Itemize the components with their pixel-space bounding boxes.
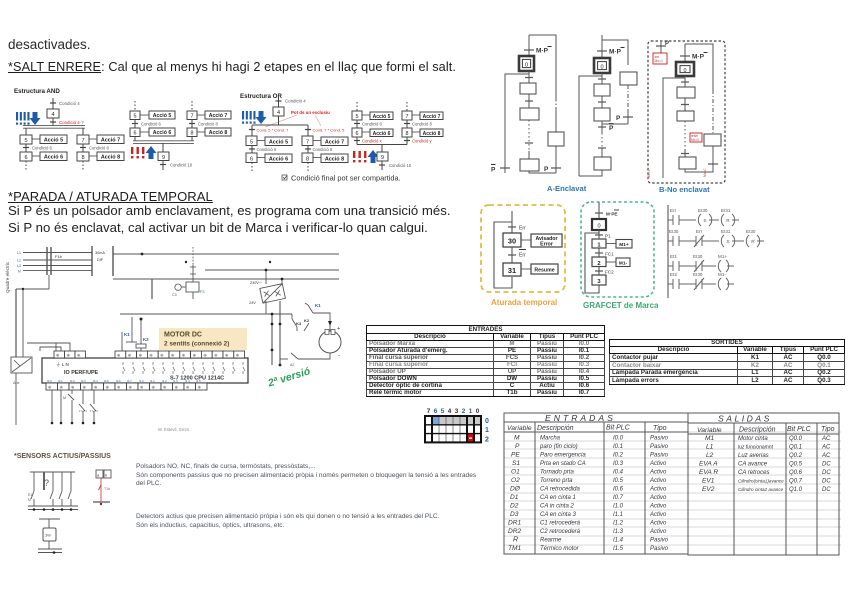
- svg-text:M: M: [28, 498, 31, 502]
- ENTRADES typed table: [366, 325, 605, 397]
- wire dotted: [684, 121, 686, 150]
- svg-text:K1: K1: [124, 332, 130, 337]
- svg-text:6: 6: [356, 131, 359, 137]
- step 8: [402, 128, 412, 137]
- svg-text:Quadre elèctric: Quadre elèctric: [5, 261, 10, 293]
- OR convergence single line: [357, 144, 407, 146]
- wire right bottom: [685, 146, 713, 172]
- svg-text:⊕: ⊕: [149, 353, 153, 358]
- left rail: [667, 205, 669, 298]
- svg-text:I0.7: I0.7: [613, 495, 624, 501]
- svg-text:⊕: ⊕: [94, 385, 98, 390]
- svg-text:⊕: ⊕: [56, 353, 60, 358]
- AND divergence double line: [23, 125, 85, 127]
- svg-text:0: 0: [684, 68, 687, 74]
- step 1: [520, 83, 536, 94]
- motor M: [319, 331, 341, 353]
- svg-text:Condició 10: Condició 10: [389, 163, 412, 168]
- svg-text:M1: M1: [705, 435, 714, 442]
- PLC top terminal strip right: [115, 351, 245, 358]
- heading PARADA: [8, 189, 213, 204]
- svg-text:M·PE: M·PE: [606, 212, 617, 217]
- svg-text:0: 0: [525, 63, 528, 69]
- svg-text:I1.0: I1.0: [613, 504, 624, 510]
- step 7: [302, 136, 313, 146]
- detector block: [39, 518, 60, 520]
- feedback left: [663, 76, 685, 178]
- yellow dashed frame: [481, 205, 565, 292]
- transition Err: [508, 226, 516, 228]
- svg-text:8: 8: [191, 131, 194, 137]
- wire + transition P: [555, 146, 557, 173]
- svg-text:PE: PE: [511, 452, 520, 459]
- wire 24V rail: [265, 301, 267, 314]
- svg-text:4: 4: [448, 408, 452, 415]
- svg-text:Acció 8: Acció 8: [325, 157, 344, 163]
- grid lines: [439, 416, 460, 442]
- svg-text:5: 5: [134, 114, 137, 120]
- svg-text:Mx=0: Mx=0: [703, 169, 707, 177]
- svg-text:M·P: M·P: [536, 48, 549, 55]
- svg-text:3: 3: [455, 408, 459, 415]
- svg-text:R: R: [726, 218, 730, 224]
- svg-text:0: 0: [485, 418, 489, 425]
- wire: [278, 97, 280, 107]
- svg-text:I0.0: I0.0: [47, 379, 52, 383]
- SALIDAS rows: [699, 435, 831, 493]
- wire: [52, 118, 54, 126]
- svg-text:EI30: EI30: [698, 208, 708, 213]
- step 0 initial: [592, 219, 606, 230]
- svg-text:0: 0: [600, 65, 603, 71]
- svg-text:⊕: ⊕: [175, 385, 179, 390]
- svg-text:W. Estevé. Emm.: W. Estevé. Emm.: [158, 427, 190, 432]
- svg-text:Térmico motor: Térmico motor: [540, 546, 580, 552]
- step 0 initial: [519, 56, 534, 71]
- wire: [278, 116, 280, 125]
- bus wires L1 L2 L3 N: [23, 253, 92, 271]
- step 2: [520, 108, 539, 120]
- red emphasis and blue arrow: [131, 147, 144, 158]
- wire: [381, 145, 383, 153]
- svg-text:⊕: ⊕: [203, 353, 207, 358]
- svg-text:Descripción: Descripción: [537, 425, 574, 432]
- svg-text:Acció 5: Acció 5: [44, 138, 63, 144]
- step D: [620, 72, 637, 85]
- blue emphasis marks: [16, 112, 41, 125]
- wire dashed: [25, 161, 27, 170]
- transition Condicio 10: [162, 161, 164, 171]
- svg-text:Condició 8: Condició 8: [89, 146, 109, 151]
- action Accio 6: [149, 128, 175, 136]
- contact K2: [291, 314, 293, 319]
- PLC S7-1200 body: [42, 358, 248, 383]
- svg-text:K2: K2: [304, 318, 310, 323]
- svg-text:⊕: ⊕: [193, 353, 197, 358]
- svg-text:M1+: M1+: [619, 242, 629, 248]
- svg-text:⊕: ⊕: [117, 353, 121, 358]
- svg-text:TM1: TM1: [508, 545, 522, 552]
- Estructura OR diagram: [235, 90, 450, 185]
- svg-text:Pasivo: Pasivo: [650, 444, 669, 450]
- top-right GRAFCET diagrams: [490, 30, 738, 196]
- cells row0: [432, 416, 481, 425]
- svg-text:I0.7: I0.7: [127, 379, 132, 383]
- svg-text:2: 2: [597, 261, 600, 267]
- action Accio 6: [370, 129, 393, 137]
- svg-text:K2: K2: [143, 337, 149, 342]
- svg-text:I0.2: I0.2: [613, 453, 624, 459]
- svg-text:+: +: [337, 326, 340, 332]
- svg-text:Mx=1: Mx=1: [655, 59, 663, 63]
- svg-text:8: 8: [406, 131, 409, 137]
- transition Condicio 8: [82, 144, 84, 152]
- svg-text:AC: AC: [821, 445, 831, 451]
- transition Condicio 6: [251, 146, 253, 154]
- svg-text:2: 2: [485, 437, 489, 444]
- svg-text:Cond. 5 * Cond. 7: Cond. 5 * Cond. 7: [257, 128, 290, 133]
- svg-text:Variable: Variable: [507, 425, 532, 432]
- svg-text:⊕: ⊕: [198, 385, 202, 390]
- svg-text:S: S: [726, 239, 729, 245]
- svg-text:Condició final pot ser compart: Condició final pot ser compartida.: [291, 174, 401, 183]
- svg-text:I0.1: I0.1: [58, 379, 63, 383]
- wire: [684, 98, 686, 111]
- fuse F3: [186, 282, 199, 292]
- step 9: [377, 152, 388, 161]
- action Resume: [531, 264, 558, 274]
- svg-text:5: 5: [356, 114, 359, 120]
- wires down: [34, 472, 71, 491]
- svg-text:Pot ds un exclusiu: Pot ds un exclusiu: [291, 110, 330, 115]
- svg-text:6: 6: [134, 131, 137, 137]
- svg-text:Condició 4·?: Condició 4·?: [59, 120, 84, 125]
- svg-text:Condició 8: Condició 8: [198, 122, 218, 127]
- svg-text:ENTRADAS: ENTRADAS: [545, 413, 616, 423]
- yellow label MOTOR DC: [159, 328, 247, 350]
- SALIDAS table frame: [688, 413, 839, 555]
- step 31: [503, 263, 521, 276]
- action set M: [653, 53, 667, 64]
- svg-text:Condició 6: Condició 6: [362, 122, 382, 127]
- PLC bottom terminal strip: [46, 383, 207, 390]
- svg-text:7: 7: [406, 114, 409, 120]
- wire dashed: [251, 163, 253, 172]
- coil R EI31: [721, 214, 739, 226]
- svg-text:Err: Err: [696, 229, 703, 234]
- svg-text:CA en cinta 1: CA en cinta 1: [540, 495, 576, 501]
- svg-text:Estructura AND: Estructura AND: [14, 88, 60, 95]
- transition Condicio 10: [381, 161, 383, 170]
- wire bottom: [529, 171, 556, 173]
- svg-text:EI30: EI30: [693, 272, 703, 277]
- svg-text:2: 2: [462, 408, 466, 415]
- transition P-bar left: [500, 167, 510, 169]
- svg-text:⏚ L N: ⏚ L N: [56, 361, 69, 367]
- svg-text:⊕: ⊕: [225, 353, 229, 358]
- svg-text:Rearme: Rearme: [540, 538, 562, 544]
- svg-text:I0.3: I0.3: [81, 379, 86, 383]
- svg-text:Pasivo: Pasivo: [650, 453, 669, 459]
- step 9: [158, 152, 169, 161]
- svg-text:4: 4: [51, 112, 54, 118]
- svg-text:Acció 5: Acció 5: [373, 114, 391, 120]
- transition red Condicio y: [406, 137, 408, 145]
- svg-text:⊕: ⊕: [214, 353, 218, 358]
- step 2: [677, 111, 694, 121]
- step 2: [592, 257, 606, 267]
- green dashed frame: [581, 202, 654, 297]
- svg-text:R: R: [751, 239, 755, 245]
- step D: [548, 132, 564, 146]
- svg-text:GRAFCET de Marca: GRAFCET de Marca: [583, 301, 658, 310]
- action Accio 8: [205, 128, 231, 136]
- svg-text:Condició 6: Condició 6: [257, 147, 277, 152]
- pink guide lines: [265, 115, 297, 127]
- contact K1: [308, 305, 313, 313]
- svg-text:P: P: [491, 167, 496, 174]
- svg-text:I1.1: I1.1: [150, 379, 155, 383]
- action Accio 7: [321, 137, 348, 146]
- cell red row2: [467, 434, 474, 443]
- step 30: [503, 233, 521, 247]
- transition Condicio 8: [307, 146, 309, 154]
- svg-text:FC2: FC2: [605, 270, 614, 275]
- svg-text:Condició 4: Condició 4: [59, 101, 80, 106]
- svg-text:⊕: ⊕: [67, 353, 71, 358]
- wire drop: [151, 279, 153, 299]
- svg-text:Marcha: Marcha: [540, 436, 561, 442]
- wires into PLC left: [27, 343, 70, 351]
- svg-text:I1.5: I1.5: [196, 379, 201, 383]
- wire + transition Err-bar: [511, 247, 513, 263]
- step 6: [20, 152, 32, 161]
- transition red: [50, 121, 56, 123]
- svg-text:Tipo: Tipo: [821, 426, 835, 433]
- svg-text:P: P: [515, 443, 520, 450]
- svg-text:Acció 7: Acció 7: [101, 138, 120, 144]
- wires below PLC: [52, 390, 94, 423]
- svg-text:M: M: [63, 396, 66, 400]
- step 1: [677, 87, 695, 98]
- svg-text:6: 6: [434, 408, 438, 415]
- svg-text:Acció 6: Acció 6: [44, 155, 63, 161]
- svg-text:7: 7: [306, 140, 309, 146]
- svg-text:⊕: ⊕: [236, 353, 240, 358]
- action Accio 8: [97, 152, 124, 161]
- differential 30mA DIF: [91, 246, 93, 276]
- svg-text:P1: P1: [605, 234, 611, 239]
- svg-text:⊕: ⊕: [140, 385, 144, 390]
- svg-text:Paro emergencia: Paro emergencia: [540, 453, 586, 459]
- svg-text:0: 0: [597, 224, 600, 230]
- svg-text:Acció 7: Acció 7: [423, 114, 441, 120]
- red emphasis and blue arrow: [353, 151, 366, 162]
- transition P: [623, 116, 633, 118]
- svg-text:8: 8: [81, 155, 84, 161]
- svg-text:Descripción: Descripción: [739, 427, 776, 434]
- wire: [601, 73, 603, 84]
- action Accio 7: [205, 111, 231, 119]
- svg-text:Condició 8: Condició 8: [313, 147, 333, 152]
- step 3: [679, 157, 696, 169]
- thermostat with fuse: [96, 470, 103, 478]
- svg-text:Luz averias: Luz averias: [738, 453, 769, 459]
- svg-text:Activo: Activo: [649, 504, 667, 510]
- breaker F1b: [46, 247, 48, 275]
- wire to motor: [313, 313, 330, 331]
- rung 2: [668, 235, 719, 247]
- wire main: [601, 35, 603, 58]
- green handwriting 2a versio: [267, 360, 328, 389]
- svg-text:230V∼: 230V∼: [250, 281, 262, 285]
- step 2: [594, 108, 610, 121]
- svg-text:I1.2: I1.2: [162, 379, 167, 383]
- svg-text:Acció 8: Acció 8: [423, 131, 441, 137]
- svg-text:⊕: ⊕: [163, 385, 167, 390]
- action M1-: [616, 258, 630, 267]
- svg-text:EI30: EI30: [693, 254, 703, 259]
- svg-text:S: S: [703, 218, 706, 224]
- svg-text:8: 8: [306, 157, 309, 163]
- terminal glyphs top: [56, 353, 239, 358]
- svg-text:Et2: Et2: [670, 272, 677, 277]
- svg-text:Mx=1: Mx=1: [647, 170, 651, 178]
- feedback wire: [494, 222, 512, 288]
- rung 3: [668, 260, 734, 272]
- bit grid: [420, 402, 498, 448]
- wire: [162, 143, 164, 152]
- OR divergence single line: [252, 124, 308, 126]
- branch 2: [307, 125, 309, 136]
- svg-text:7: 7: [81, 138, 84, 144]
- svg-text:D2: D2: [510, 503, 519, 510]
- svg-text:⊕: ⊕: [71, 385, 75, 390]
- wire into transformer: [281, 279, 283, 285]
- svg-text:Variable: Variable: [697, 427, 722, 434]
- svg-text:I0.0: I0.0: [613, 436, 624, 442]
- svg-text:⊕: ⊕: [83, 385, 87, 390]
- svg-text:3W: 3W: [45, 534, 51, 538]
- action Accio 5: [40, 135, 67, 144]
- step 5: [20, 135, 32, 144]
- handwritten tables: [500, 408, 845, 560]
- transition Condicio 6: [25, 144, 27, 152]
- action Accio 8: [321, 154, 348, 163]
- svg-text:DIF: DIF: [97, 258, 104, 262]
- svg-text:L2: L2: [17, 259, 21, 263]
- svg-text:Tipo: Tipo: [653, 425, 667, 432]
- svg-text:Err: Err: [670, 208, 677, 213]
- GRAFCET de Marca diagram: [578, 198, 658, 312]
- wire dashed: [82, 161, 84, 170]
- wire: [684, 76, 686, 87]
- phase labels: [17, 251, 21, 274]
- svg-text:Mx=0: Mx=0: [691, 138, 699, 142]
- svg-text:Pasivo: Pasivo: [650, 538, 669, 544]
- svg-text:6: 6: [250, 157, 253, 163]
- vertical feeders: [271, 314, 273, 365]
- PLC top terminal strip left: [54, 351, 86, 358]
- svg-text:7: 7: [191, 114, 194, 120]
- transition Condicio 8: [406, 120, 408, 128]
- svg-text:24V: 24V: [249, 301, 256, 305]
- svg-text:Condició 6: Condició 6: [32, 146, 52, 151]
- wire: [52, 98, 54, 109]
- step 6: [130, 128, 140, 137]
- svg-text:Err: Err: [519, 226, 526, 232]
- dashed frame: [648, 41, 725, 183]
- svg-text:⊕: ⊕: [139, 353, 143, 358]
- step 5: [352, 111, 362, 120]
- feedback wire: [585, 230, 599, 293]
- left feeder wires to aux: [48, 275, 50, 289]
- transition FC2: [598, 267, 600, 276]
- Estructura AND diagram: [12, 84, 240, 186]
- branch 2 wire: [82, 128, 84, 135]
- aux breaker: [11, 357, 32, 373]
- step 8: [187, 128, 197, 137]
- svg-text:F3: F3: [200, 290, 204, 294]
- svg-text:Condició 10: Condició 10: [170, 163, 193, 168]
- wire transitions bottom: [684, 150, 686, 157]
- svg-text:Et1: Et1: [670, 254, 677, 259]
- step 6: [246, 153, 257, 163]
- wire dotted: [601, 133, 603, 148]
- rung 4: [668, 278, 734, 290]
- svg-text:A2: A2: [290, 363, 294, 367]
- transition FC1: [598, 248, 600, 257]
- wire: [528, 71, 530, 83]
- action Accio 5: [265, 137, 292, 146]
- wire join: [602, 123, 628, 125]
- wire dashed: [356, 102, 358, 111]
- svg-text:P: P: [665, 41, 669, 47]
- svg-text:paro (fin ciclo): paro (fin ciclo): [539, 444, 578, 450]
- transition Condicio 8: [191, 120, 193, 129]
- svg-text:F1b: F1b: [55, 254, 63, 259]
- wire main: [511, 211, 513, 233]
- svg-text:I1.5: I1.5: [613, 546, 624, 552]
- svg-text:Pasivo: Pasivo: [650, 546, 669, 552]
- feedback wire left: [505, 71, 529, 173]
- step 5: [246, 136, 257, 146]
- svg-text:Error: Error: [540, 242, 553, 248]
- svg-text:31: 31: [508, 266, 516, 275]
- svg-text:P: P: [609, 125, 614, 132]
- main wiring schematic: [0, 243, 470, 443]
- PLC internal relay contacts: [123, 362, 245, 374]
- svg-text:Bit PLC: Bit PLC: [606, 425, 631, 432]
- svg-text:-: -: [338, 352, 340, 359]
- svg-text:L1: L1: [17, 251, 21, 255]
- svg-text:R: R: [513, 537, 518, 544]
- svg-text:Condició x: Condició x: [362, 139, 382, 144]
- text: desactivades.: [8, 37, 91, 52]
- svg-text:L3: L3: [17, 264, 21, 268]
- svg-text:Acció 6: Acció 6: [269, 157, 288, 163]
- step 0 initial: [594, 58, 610, 73]
- svg-text:M1-: M1-: [619, 261, 628, 267]
- svg-text:K3: K3: [296, 321, 302, 326]
- action Accio 5: [370, 112, 393, 120]
- svg-text:⊕: ⊕: [48, 385, 52, 390]
- svg-text:T1b: T1b: [104, 487, 110, 491]
- svg-text:Condició y: Condició y: [412, 139, 432, 144]
- svg-text:Motor cinta: Motor cinta: [738, 436, 768, 442]
- wire dashed: [307, 163, 309, 172]
- step 4: [273, 107, 284, 116]
